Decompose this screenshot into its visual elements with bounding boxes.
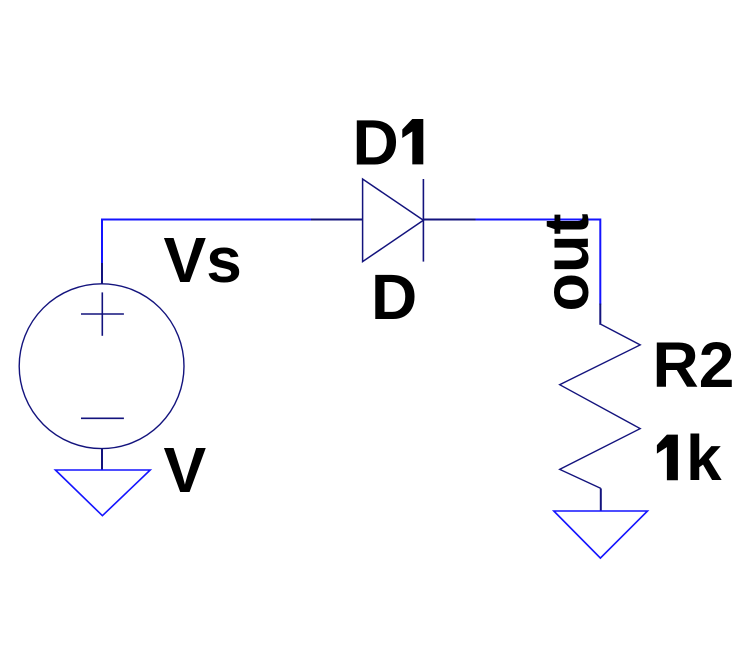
svg-text:Vs: Vs bbox=[164, 224, 242, 296]
wire net out (diode cathode to resistor) bbox=[476, 220, 601, 305]
label 1k bbox=[657, 435, 678, 481]
svg-text:D: D bbox=[371, 261, 417, 333]
svg-text:D: D bbox=[353, 107, 399, 179]
svg-text:k: k bbox=[686, 422, 722, 494]
svg-text:V: V bbox=[164, 434, 207, 506]
wire net Vs (source top to diode anode) bbox=[102, 220, 312, 265]
svg-text:out: out bbox=[532, 214, 602, 312]
voltage source V1 bbox=[19, 263, 184, 470]
resistor R2 bbox=[560, 304, 641, 511]
ground (below V1) bbox=[55, 470, 150, 516]
diode D1 bbox=[311, 179, 476, 262]
svg-text:R2: R2 bbox=[653, 329, 735, 401]
ground (below R2) bbox=[554, 511, 648, 558]
